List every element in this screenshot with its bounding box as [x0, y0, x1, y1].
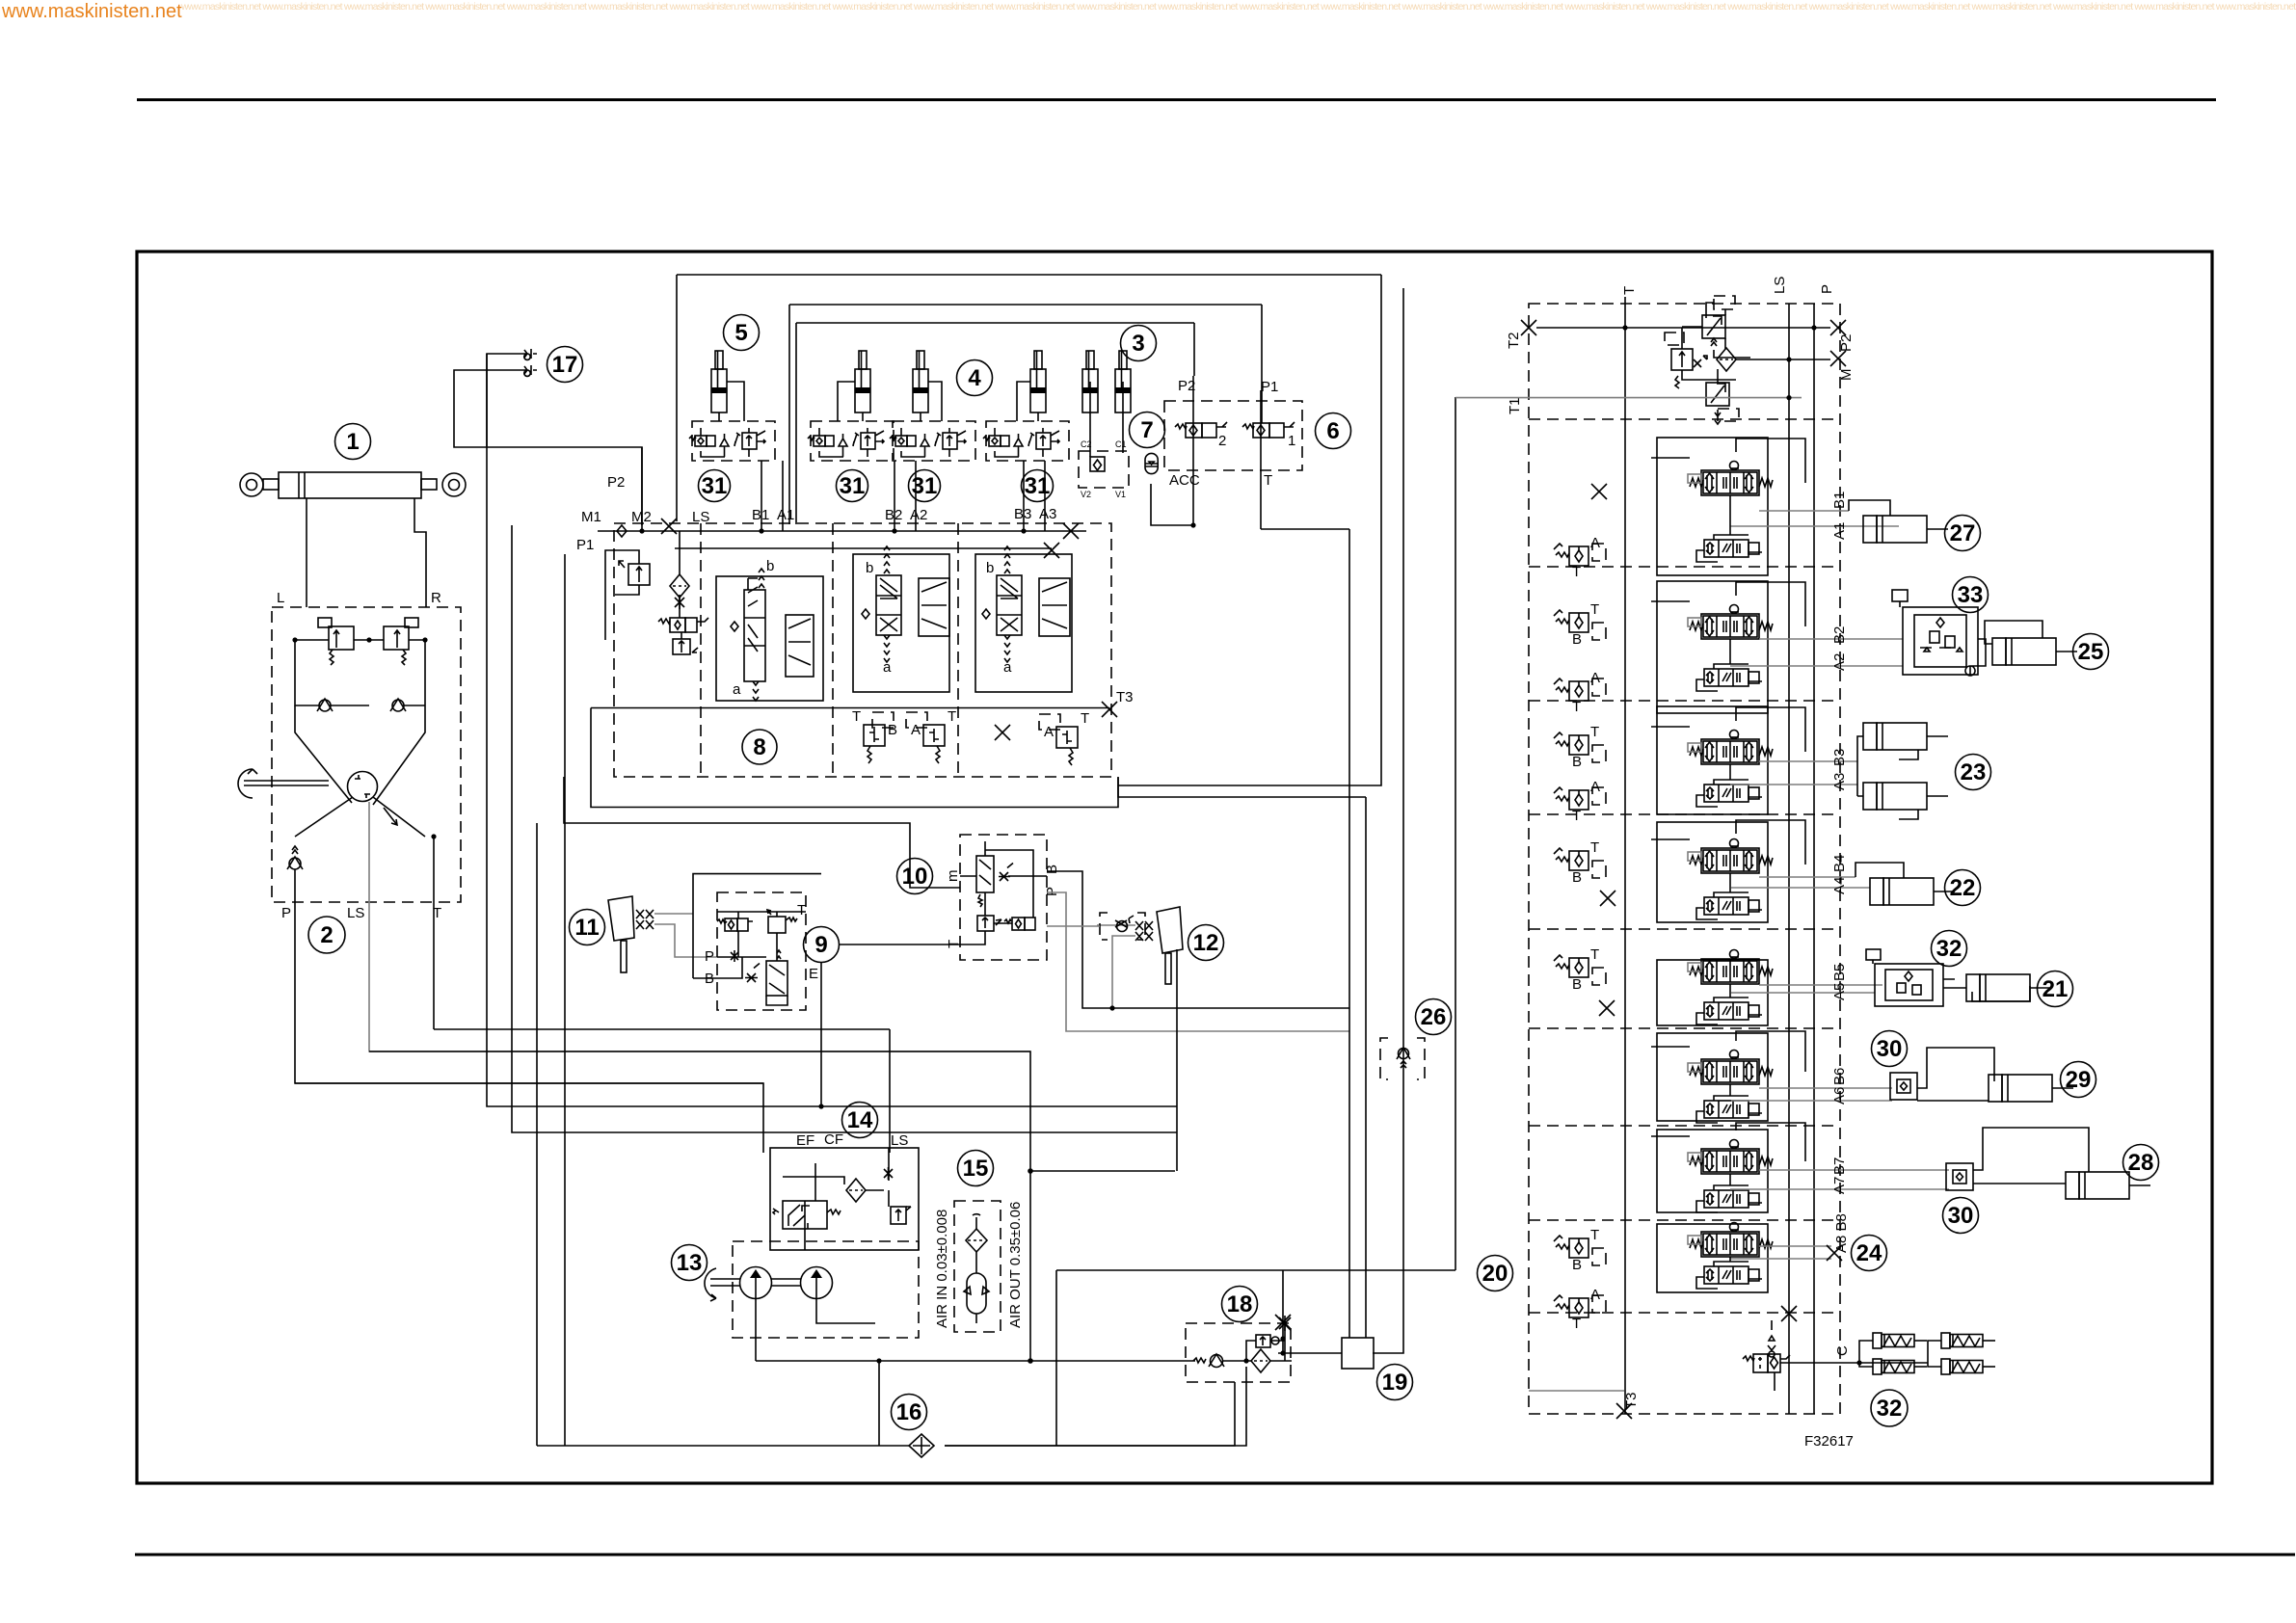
spool section A vertical — [716, 558, 823, 701]
dashed divider 1 — [700, 523, 702, 777]
svg-text:www.maskinisten.net: www.maskinisten.net — [1, 1, 182, 22]
svg-text:T: T — [1590, 1227, 1599, 1243]
rail x1417 — [1365, 797, 1367, 1338]
svg-text:R: R — [431, 590, 441, 606]
cylinder 23 upper — [1863, 723, 1948, 750]
test X s5 — [1599, 1000, 1615, 1016]
dashed separator s1 — [1529, 566, 1840, 568]
circled number 8 — [742, 730, 777, 764]
lower wire loop — [564, 777, 960, 888]
pump control throttle — [1694, 356, 1707, 367]
inner box s6 — [1657, 1033, 1768, 1121]
solid box around section assembly — [591, 708, 1118, 808]
svg-text:5: 5 — [734, 320, 747, 346]
wire T2-P2 — [1536, 327, 1830, 329]
svg-text:B: B — [1572, 976, 1582, 993]
dashed separator s4 — [1529, 928, 1840, 930]
circled number 12 — [1188, 925, 1224, 961]
throttle X section C — [995, 725, 1010, 740]
svg-text:B4: B4 — [1831, 855, 1848, 872]
wire B8 — [1759, 1245, 1831, 1247]
svg-text:V2: V2 — [1081, 490, 1091, 499]
check valve 26 — [1380, 1038, 1425, 1079]
inner box s7 — [1657, 1130, 1768, 1212]
wire s6 spool top — [1651, 1031, 1805, 1072]
svg-text:A3: A3 — [1039, 506, 1056, 522]
circled number 31 d — [1022, 470, 1054, 502]
wire B6 — [1759, 1087, 1892, 1089]
svg-text:A4: A4 — [1831, 877, 1848, 894]
filter 16 — [909, 1434, 934, 1457]
solenoid valve C — [1743, 1354, 1790, 1372]
cylinder 1 (steering cylinder) — [240, 472, 466, 498]
svg-text:22: 22 — [1950, 875, 1976, 901]
wire from box8 right to rail — [1118, 777, 1366, 797]
priority valve spool — [773, 1201, 841, 1229]
throttle in box10 — [999, 864, 1013, 882]
wire return vertical A — [536, 823, 538, 1446]
circled number 2 — [308, 917, 345, 953]
svg-text:M1: M1 — [581, 509, 601, 525]
wire return vertical B — [564, 554, 566, 1446]
svg-text:B3: B3 — [1014, 506, 1031, 522]
valve group 31 no.2 — [808, 421, 894, 461]
check valve 18 — [1193, 1354, 1224, 1368]
wire top loop outer — [677, 275, 1381, 521]
pump control reducer 2 — [1706, 383, 1739, 424]
wire B3 — [1759, 760, 1857, 762]
pump 1 — [740, 1267, 772, 1299]
svg-text:27: 27 — [1950, 520, 1976, 546]
inlet relief valve — [605, 550, 650, 640]
wire pumps down — [756, 1299, 875, 1362]
svg-text:B: B — [1572, 754, 1582, 770]
wire T staircase — [434, 1028, 890, 1030]
svg-text:T: T — [1572, 1316, 1581, 1332]
svg-text:A1: A1 — [1831, 522, 1848, 540]
wire cyl21 — [1943, 979, 2030, 1001]
circled number 29 — [2061, 1062, 2096, 1098]
svg-text:C: C — [1834, 1345, 1851, 1356]
svg-text:P: P — [281, 905, 291, 921]
cylinder 22 — [1870, 878, 1955, 905]
svg-text:23: 23 — [1961, 759, 1987, 785]
svg-text:8: 8 — [753, 734, 765, 760]
test point T3 bottom — [1616, 1403, 1632, 1419]
wire 9 to box10 — [840, 944, 953, 945]
svg-text:V1: V1 — [1115, 490, 1126, 499]
svg-text:L: L — [277, 590, 284, 606]
svg-text:T: T — [1590, 946, 1599, 963]
svg-text:10: 10 — [902, 864, 928, 890]
circled number 23 — [1956, 755, 1991, 790]
svg-text:AIR OUT 0.35±0.06: AIR OUT 0.35±0.06 — [1007, 1202, 1024, 1328]
svg-text:31: 31 — [1025, 473, 1051, 499]
wire E port down — [820, 963, 822, 1106]
pilot valve s3-A — [1554, 779, 1606, 824]
quick coupler 17a — [523, 349, 537, 359]
wire box18 internals — [1223, 1323, 1292, 1361]
pump shaft — [705, 1268, 801, 1301]
wire T from box2 down — [433, 837, 435, 1029]
wire LS gray from motor down — [369, 802, 1030, 1051]
wire cyls 23 — [1857, 736, 1918, 819]
dashed separator s6 — [1529, 1125, 1840, 1127]
throttle check above C — [1768, 1336, 1775, 1357]
circled number 5 — [724, 315, 760, 351]
dashed box 10 — [960, 835, 1047, 960]
cylinder 23 lower — [1863, 783, 1948, 810]
wire A8 — [1730, 1258, 1831, 1260]
pump control reducer 1 — [1702, 296, 1750, 358]
svg-text:31: 31 — [702, 473, 728, 499]
wires cylinders to valve groups — [719, 382, 1038, 421]
wire cyl25 top — [1985, 621, 2042, 644]
quick couplers joystick 12 — [1135, 921, 1153, 941]
wire cyl29 — [1917, 1048, 1994, 1101]
filter 18 — [1251, 1349, 1270, 1372]
svg-text:F32617: F32617 — [1804, 1433, 1854, 1450]
check valve with spring bottom left box2 — [287, 846, 303, 869]
circled number 13 — [672, 1245, 707, 1281]
inner box s4 — [1657, 822, 1768, 922]
bottom rule line — [135, 1554, 2295, 1556]
dashed box 15 — [954, 1201, 1001, 1332]
pilot valve s5-B — [1554, 946, 1606, 993]
dashed separator s5 — [1529, 1027, 1840, 1029]
dashed box 20 — [1529, 304, 1840, 1414]
wire top loop mid — [789, 305, 1262, 524]
pump 2 — [801, 1267, 833, 1299]
svg-text:29: 29 — [2066, 1067, 2092, 1093]
pump control relief — [1665, 333, 1693, 388]
wire cyl22 top — [1855, 863, 1904, 878]
svg-text:30: 30 — [1948, 1203, 1974, 1229]
cylinder 29 — [1989, 1075, 2073, 1102]
lower spool s2 — [1696, 664, 1762, 691]
wire A6 — [1731, 1100, 1892, 1102]
valve group 31 no.1 — [689, 421, 775, 461]
svg-text:18: 18 — [1227, 1291, 1253, 1317]
circled number 25 — [2073, 634, 2109, 670]
dashed separator s3 — [1529, 813, 1840, 815]
svg-text:A2: A2 — [910, 507, 927, 523]
test X s8 bottom — [1781, 1306, 1797, 1321]
svg-text:B: B — [1044, 865, 1060, 874]
svg-text:21: 21 — [2042, 976, 2069, 1002]
rail P — [1813, 304, 1815, 1414]
svg-text:T: T — [1572, 564, 1581, 580]
svg-text:EF: EF — [796, 1132, 814, 1149]
svg-text:6: 6 — [1326, 418, 1339, 444]
pilot cylinder group4 b — [913, 351, 928, 412]
svg-text:P: P — [1819, 284, 1835, 294]
svg-text:14: 14 — [847, 1107, 873, 1133]
inner box s8 — [1657, 1224, 1768, 1292]
rail T — [1624, 297, 1626, 1414]
svg-text:A6: A6 — [1831, 1087, 1848, 1104]
pilot cylinder group4 a — [855, 351, 870, 412]
svg-text:28: 28 — [2128, 1150, 2154, 1176]
circled number 30 s6 — [1872, 1031, 1908, 1067]
inlet throttle X — [675, 596, 684, 609]
main spool s8 — [1688, 1223, 1773, 1258]
svg-text:P2: P2 — [607, 474, 625, 491]
wire box14 internals — [783, 1148, 889, 1250]
wire B2 — [1759, 638, 1903, 640]
reducing valve in box10 — [976, 856, 994, 907]
main spool s6 — [1688, 1051, 1773, 1085]
svg-text:B: B — [1572, 631, 1582, 648]
port drops B2 A2 — [894, 461, 916, 531]
circled number 6 — [1316, 413, 1351, 449]
svg-text:26: 26 — [1421, 1004, 1447, 1030]
wire S4 — [487, 354, 1177, 1106]
lower spool s1 — [1696, 535, 1762, 562]
test X s4 — [1600, 891, 1615, 906]
node S4 E — [818, 1104, 823, 1108]
throttle X in box9 — [731, 950, 738, 962]
spring cylinder 32-4 — [1941, 1359, 1995, 1374]
test point X M2 — [661, 519, 677, 534]
rail A — [1788, 304, 1790, 1414]
solenoid in box10 — [1004, 918, 1035, 930]
wire LS under P1 — [675, 547, 1052, 549]
inlet reducer — [673, 639, 698, 654]
circled number 27 — [1945, 516, 1981, 551]
circled number 30 s7 — [1943, 1198, 1979, 1234]
joystick 11 — [608, 896, 634, 972]
wire cyl27 top — [1849, 500, 1890, 516]
svg-text:30: 30 — [1877, 1036, 1903, 1062]
wire S3 P to box14 EF — [295, 1083, 763, 1153]
box 14 solid — [770, 1148, 919, 1250]
pilot valve s4-B — [1554, 839, 1606, 886]
relief in box9 — [767, 910, 797, 933]
circled number 14 — [842, 1103, 878, 1138]
spring cylinder 32-1 — [1873, 1333, 1927, 1348]
svg-text:LS: LS — [891, 1132, 908, 1149]
circled number 31 c — [909, 470, 941, 502]
svg-text:33: 33 — [1958, 582, 1984, 608]
wire top loop inner — [796, 323, 1194, 524]
circled number 28 — [2123, 1145, 2159, 1181]
circled number 19 — [1377, 1365, 1413, 1400]
svg-text:1: 1 — [1288, 433, 1295, 449]
svg-text:B3: B3 — [1831, 749, 1848, 766]
dashed separator s7 — [1529, 1219, 1840, 1221]
circled number 24 — [1852, 1236, 1887, 1271]
spring cylinder 32-3 — [1941, 1333, 1995, 1348]
svg-text:11: 11 — [574, 915, 599, 941]
test point P2 right — [1830, 320, 1846, 335]
svg-text:P: P — [705, 948, 714, 965]
wire pump outlet main — [756, 1360, 1195, 1362]
svg-text:B1: B1 — [752, 507, 769, 523]
joystick 12 — [1157, 907, 1183, 984]
dashed separator s8 — [1529, 1312, 1840, 1314]
svg-text:17: 17 — [552, 352, 578, 378]
rail x1400 — [1348, 529, 1350, 1338]
svg-text:4: 4 — [968, 365, 981, 391]
accumulator 7 — [1145, 453, 1158, 473]
main spool s5 — [1688, 950, 1773, 985]
svg-text:T: T — [1572, 808, 1581, 824]
pilot valve s8-B — [1554, 1227, 1606, 1273]
svg-text:P1: P1 — [576, 537, 594, 553]
reducer in box10 — [977, 916, 1001, 931]
node dots pump control — [1622, 325, 1627, 330]
wire A3 — [1730, 784, 1857, 785]
solid loop around joystick module — [693, 874, 821, 978]
cylinder 21 — [1966, 974, 2051, 1001]
wire box10 B stair — [1047, 871, 1349, 1008]
svg-text:7: 7 — [1140, 417, 1153, 443]
svg-text:C2: C2 — [1081, 439, 1092, 449]
test point T2 — [1521, 320, 1536, 335]
wire P2 drop — [641, 447, 643, 531]
circled number 15 — [958, 1151, 994, 1186]
valve group 31 no.3 — [890, 421, 975, 461]
svg-text:A5: A5 — [1831, 983, 1848, 1000]
wire s1 spool top — [1651, 328, 1805, 483]
X cross 18 — [1279, 1316, 1291, 1331]
svg-text:15: 15 — [963, 1156, 989, 1182]
node dots box2 top — [292, 637, 297, 642]
adjustable throttle box9 — [745, 964, 760, 983]
pilot valve s2-A — [1554, 670, 1606, 715]
svg-text:T: T — [852, 708, 861, 725]
svg-text:32: 32 — [1936, 936, 1962, 962]
quick coupler 17b — [523, 365, 537, 376]
main spool s3 — [1688, 731, 1773, 765]
group3 check network — [1079, 382, 1129, 499]
wire P1 long — [598, 530, 1086, 532]
wire B7 — [1759, 1169, 1949, 1171]
solenoid valve 2 — [1175, 422, 1227, 449]
main spool s2 — [1688, 605, 1773, 640]
inner box s2 — [1657, 581, 1768, 713]
pilot valve s3-B — [1554, 724, 1606, 770]
pilot valve s1-A — [1554, 535, 1606, 580]
wire gray T3 collector — [1529, 1390, 1624, 1392]
port drops B1 A1 — [761, 461, 783, 531]
wire C line — [1772, 1320, 1859, 1391]
svg-text:a: a — [733, 681, 741, 698]
svg-text:A7: A7 — [1831, 1177, 1848, 1194]
wire to coupler 17a — [487, 354, 523, 446]
svg-text:T: T — [1590, 724, 1599, 740]
relief valve right in box2 — [384, 618, 418, 665]
svg-text:P: P — [1044, 887, 1060, 896]
wire to spring cylinders — [1859, 1341, 1941, 1367]
circled number 26 — [1416, 999, 1452, 1035]
svg-text:31: 31 — [840, 473, 866, 499]
circled number 16 — [892, 1395, 927, 1430]
svg-text:www.maskinisten.net www.maski: www.maskinisten.net www.maskinisten.net … — [180, 1, 2296, 13]
wire B1 — [1759, 510, 1849, 512]
wire s7 spool top — [1651, 1123, 1805, 1161]
svg-text:LS: LS — [347, 905, 364, 921]
lower spool s8 — [1696, 1262, 1762, 1289]
dashed box 2 (steering unit) — [272, 607, 461, 902]
circled number 1 — [335, 424, 371, 460]
wire P from box2 to staircase — [295, 869, 763, 1083]
wire A1 — [1730, 525, 1899, 527]
wire pump control — [1682, 327, 1830, 383]
svg-text:32: 32 — [1877, 1396, 1903, 1422]
wire B4 — [1759, 876, 1855, 878]
svg-text:19: 19 — [1382, 1370, 1408, 1396]
svg-text:T: T — [1590, 839, 1599, 856]
valve block 33 — [1892, 590, 1986, 676]
svg-text:T: T — [1621, 286, 1638, 295]
svg-text:B2: B2 — [1831, 626, 1848, 644]
svg-text:B7: B7 — [1831, 1157, 1848, 1175]
wire box10 P stair — [1047, 892, 1349, 1031]
rail x1510 — [1455, 397, 1456, 1270]
circled number 4 — [957, 360, 993, 396]
wire across relief valves — [295, 639, 425, 641]
wire box10 internals — [953, 841, 1047, 945]
circled number 18 — [1222, 1287, 1258, 1322]
circled number 32 s5 — [1932, 931, 1967, 967]
svg-text:T: T — [1081, 710, 1089, 727]
wire cyl28 — [1973, 1128, 2089, 1184]
svg-text:a: a — [1003, 659, 1012, 676]
wire inlet section — [680, 531, 681, 639]
wire joystick12 drop — [1176, 949, 1178, 1171]
check valve left in box2 — [317, 699, 333, 711]
wire B5 — [1759, 984, 1882, 986]
svg-text:T3: T3 — [1623, 1392, 1640, 1409]
svg-text:b: b — [986, 560, 994, 576]
wire S2 LS to box14 — [369, 1051, 1030, 1361]
svg-text:T2: T2 — [1506, 332, 1522, 349]
wire cylinder1 R port down — [414, 498, 426, 607]
spring cylinder 32-2 — [1873, 1359, 1927, 1374]
inner box s5 — [1657, 960, 1768, 1025]
svg-text:A1: A1 — [777, 507, 794, 523]
dashed box 9 — [717, 892, 806, 1010]
block 19 — [1342, 1338, 1374, 1369]
node dots P1 line — [639, 528, 644, 533]
dashed separator s2 — [1529, 700, 1840, 702]
test point T3 top — [1102, 702, 1117, 717]
circled number 31 a — [699, 470, 731, 502]
cylinder 27 — [1863, 516, 1948, 543]
svg-text:1: 1 — [346, 429, 359, 455]
test X rail19 — [1275, 1315, 1291, 1330]
wire S5 — [512, 525, 1177, 1132]
svg-text:B6: B6 — [1831, 1068, 1848, 1085]
dashed divider 2 — [832, 523, 834, 777]
valve group 31 no.4 — [983, 421, 1069, 461]
inlet solenoid — [658, 618, 708, 632]
inlet filter — [670, 574, 689, 598]
svg-text:T: T — [1572, 699, 1581, 715]
svg-text:T: T — [1590, 601, 1599, 618]
svg-text:b: b — [866, 560, 873, 576]
svg-text:B: B — [888, 722, 897, 738]
valve block 30 s6 — [1890, 1073, 1917, 1100]
svg-text:T1: T1 — [1507, 397, 1523, 414]
inner box s3 — [1657, 706, 1768, 814]
solenoid valve 1 — [1242, 422, 1295, 449]
wire joystick12 hoses — [1097, 925, 1135, 1008]
svg-text:a: a — [883, 659, 892, 676]
wire s4 spool top — [1651, 820, 1805, 865]
